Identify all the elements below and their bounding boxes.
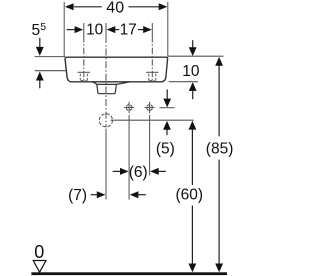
dimension 10 (left tap to drain) <box>67 21 104 38</box>
drain centerline <box>105 36 107 127</box>
svg-text:17: 17 <box>120 21 137 38</box>
drain outlet dashed circle <box>99 114 112 127</box>
svg-text:(7): (7) <box>68 187 87 204</box>
svg-text:(5): (5) <box>156 141 175 158</box>
svg-text:40: 40 <box>106 0 124 17</box>
svg-text:(60): (60) <box>176 187 204 204</box>
dimension 17 (drain to right tap) <box>107 21 152 38</box>
extension line right edge (40 dim) <box>167 2 169 57</box>
dimension (5) supply to drain level <box>156 89 175 157</box>
svg-text:10: 10 <box>86 21 104 38</box>
svg-text:5: 5 <box>32 22 41 39</box>
supply left centerline <box>128 115 130 200</box>
extension line basin bottom right <box>169 81 199 83</box>
svg-text:5: 5 <box>40 21 46 33</box>
basin underside bulge <box>92 82 129 84</box>
washbasin outline <box>65 57 168 82</box>
tap2 hole cross bar <box>146 71 159 73</box>
supply connection cross left <box>124 102 134 113</box>
svg-text:0: 0 <box>34 242 44 262</box>
floor line <box>31 272 227 275</box>
extension line tap hole level left <box>35 70 67 72</box>
extension stub tap2 (dim row 2) <box>151 23 153 36</box>
floor level datum 0 <box>33 242 46 272</box>
drain trap cup <box>97 84 117 93</box>
extension line basin top left <box>35 56 66 58</box>
supply right centerline <box>149 115 151 176</box>
svg-text:(85): (85) <box>206 140 234 157</box>
drain level line <box>111 119 194 121</box>
tap2 centerline <box>151 36 153 81</box>
svg-text:10: 10 <box>182 63 200 80</box>
extension stub drain (dim row 2) <box>105 23 107 36</box>
dimension 40 top <box>65 0 167 17</box>
extension stub tap1 (dim row 2) <box>83 23 85 36</box>
dimension 10 right (basin height) <box>182 40 200 99</box>
extension line basin top right <box>168 55 223 57</box>
tap1 hole cross bar <box>78 71 91 73</box>
supply connection cross right <box>145 102 155 113</box>
tap2 hole dashed outline <box>149 74 156 81</box>
svg-text:(6): (6) <box>129 164 148 181</box>
dimension (6) supply spacing <box>113 164 166 181</box>
dimension (60) drain level to floor <box>176 121 204 272</box>
dimension 5.5 left (basin top to tap hole level) <box>32 21 47 88</box>
supply level tick line <box>160 107 175 109</box>
dimension (85) basin top to floor <box>206 57 234 272</box>
extension line left edge (40 dim) <box>63 2 65 57</box>
dimension (7) drain to supply <box>68 187 146 204</box>
tap1 hole dashed outline <box>80 74 87 81</box>
tap1 centerline <box>83 36 85 81</box>
